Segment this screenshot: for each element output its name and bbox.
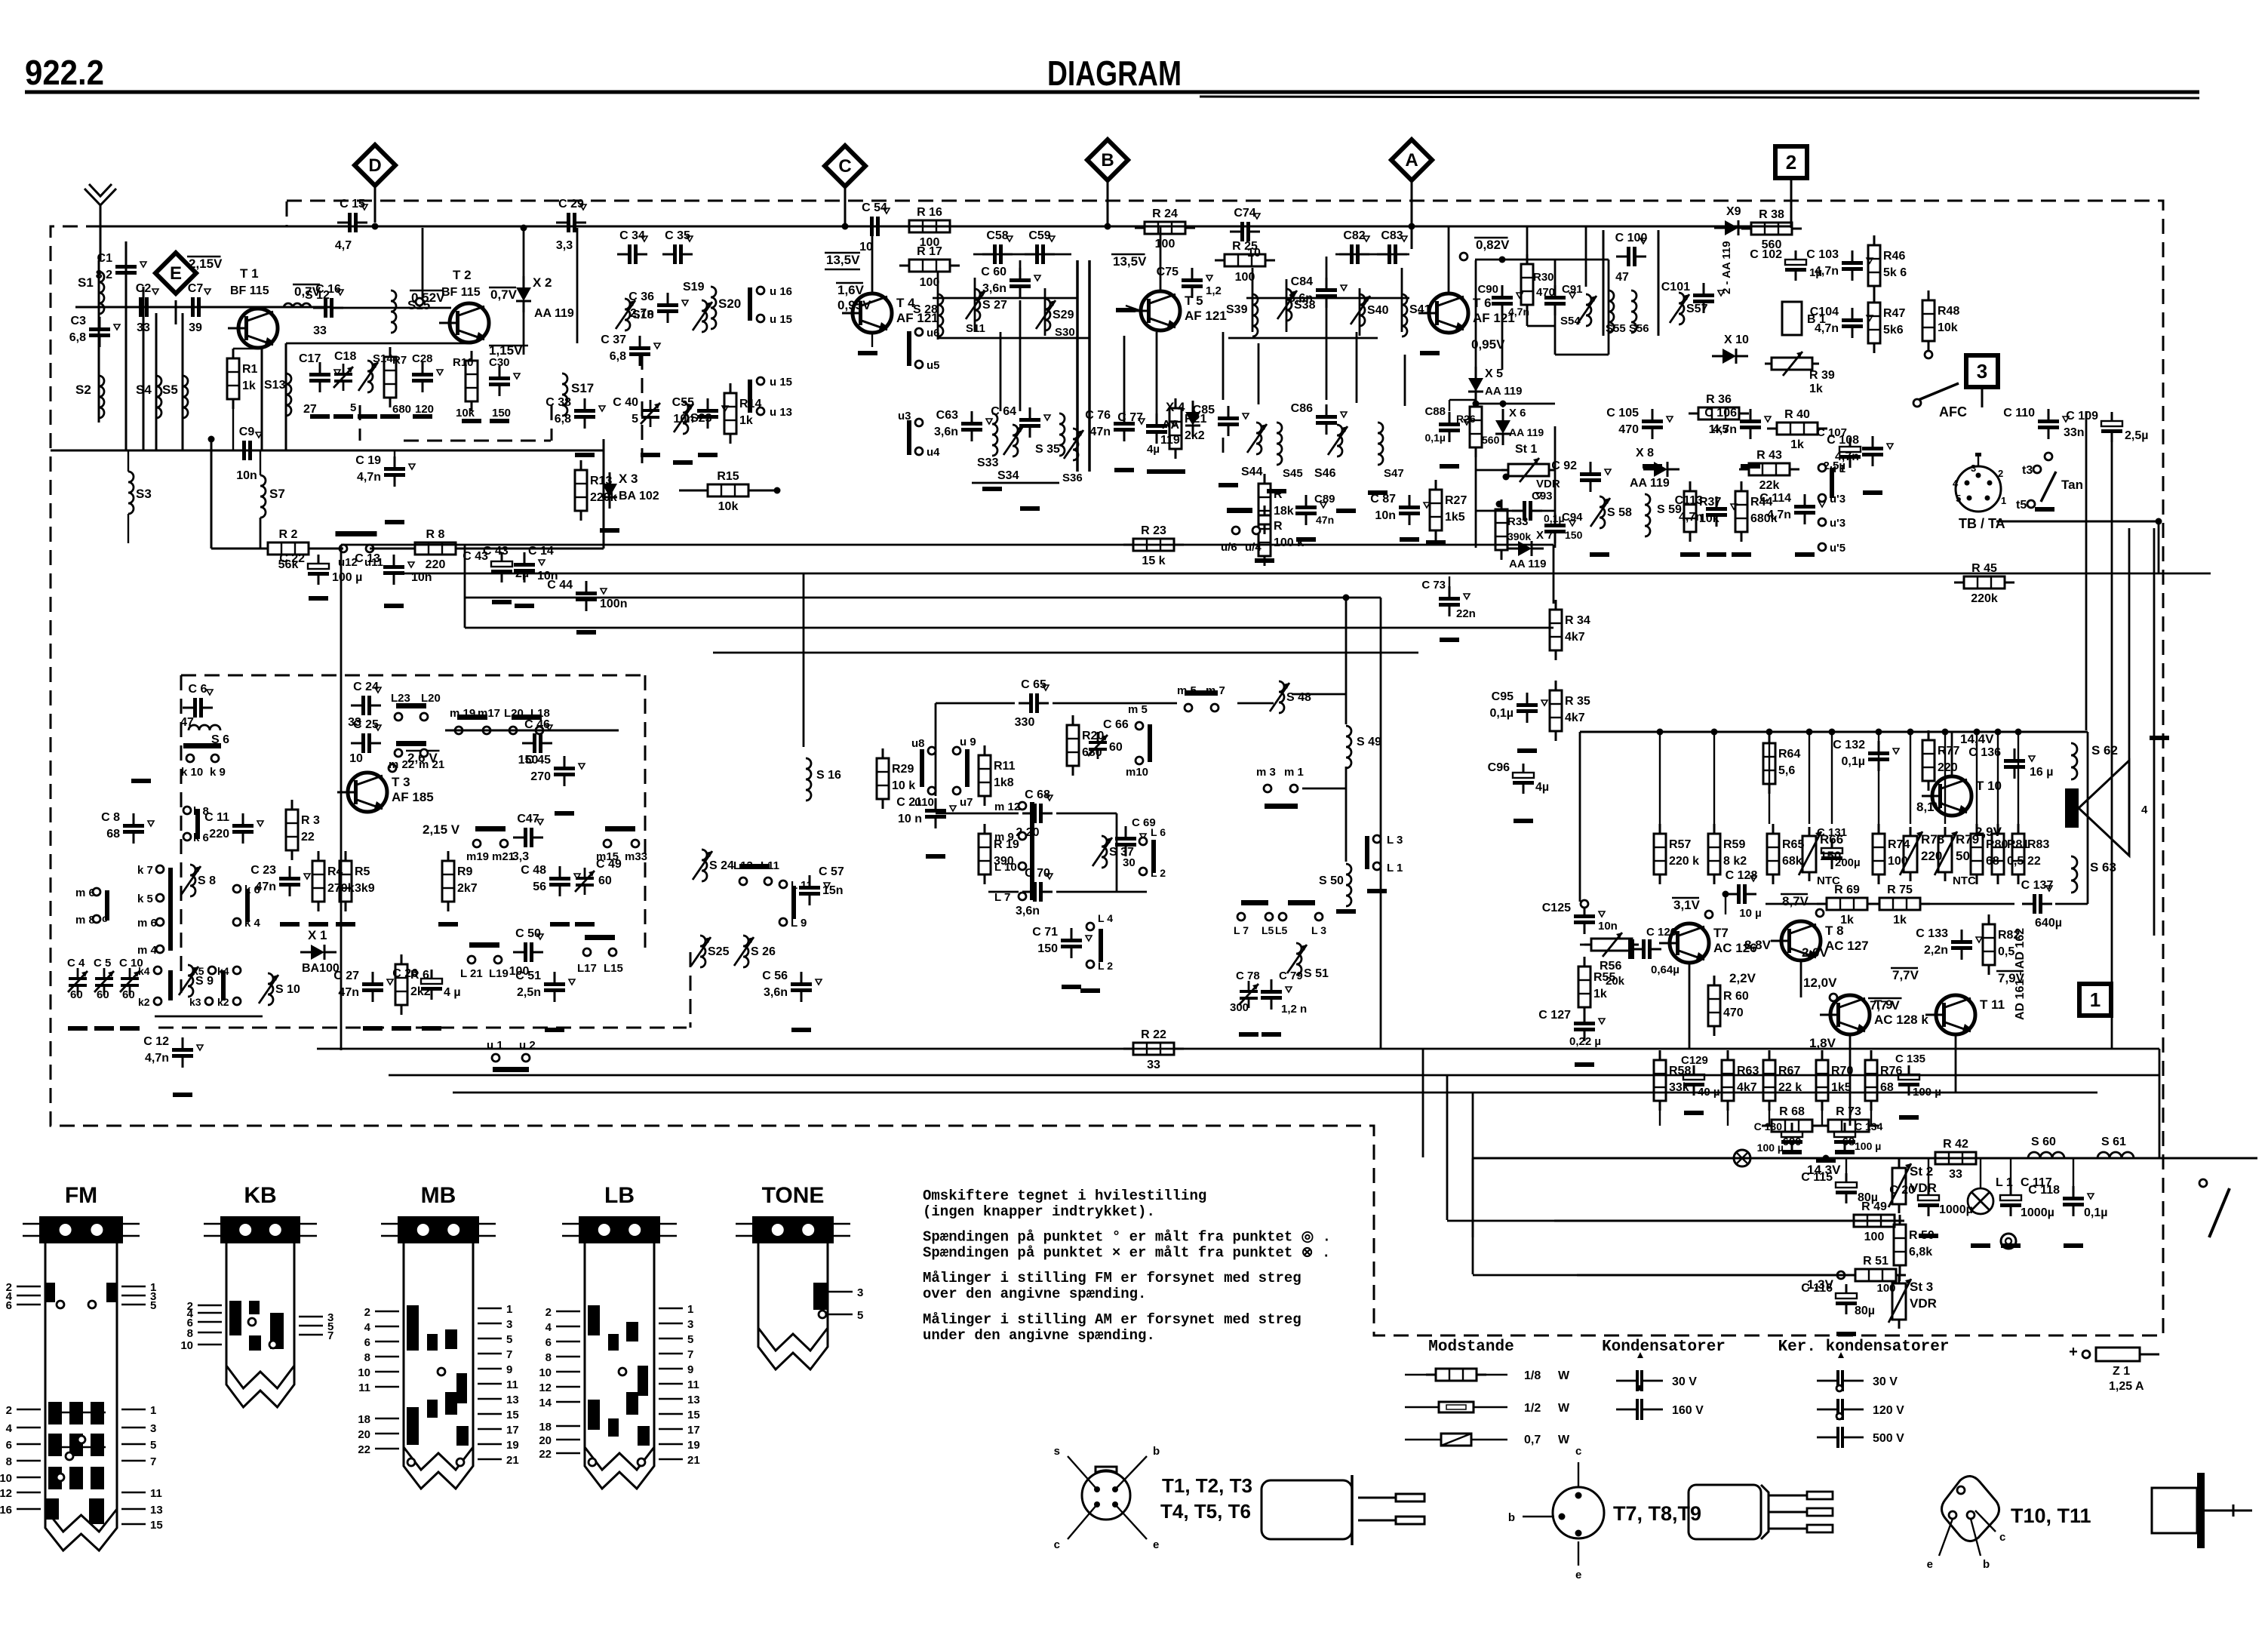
- svg-text:1k: 1k: [242, 380, 256, 392]
- svg-text:S17: S17: [571, 381, 594, 395]
- svg-text:C2: C2: [136, 282, 152, 295]
- svg-text:S 51: S 51: [1304, 967, 1329, 980]
- svg-text:k5: k5: [192, 965, 204, 977]
- svg-text:C 12: C 12: [143, 1035, 169, 1048]
- svg-text:11: 11: [150, 1487, 162, 1500]
- svg-text:6,8: 6,8: [69, 331, 86, 344]
- svg-text:3,3: 3,3: [556, 239, 573, 252]
- svg-text:10 k: 10 k: [892, 779, 915, 792]
- svg-text:R65: R65: [1782, 838, 1804, 851]
- svg-text:2: 2: [6, 1404, 12, 1417]
- svg-text:S 48: S 48: [1286, 691, 1311, 704]
- svg-text:R 40: R 40: [1784, 408, 1810, 421]
- svg-text:m 1: m 1: [1284, 766, 1304, 779]
- svg-text:C 103: C 103: [1806, 248, 1839, 261]
- svg-text:27: 27: [303, 403, 317, 416]
- svg-text:C 37: C 37: [601, 333, 626, 346]
- svg-text:C 36: C 36: [628, 290, 654, 303]
- svg-text:R 34: R 34: [1565, 614, 1590, 627]
- svg-text:4k7: 4k7: [1565, 631, 1585, 644]
- svg-text:16: 16: [0, 1504, 12, 1517]
- svg-text:100 µ: 100 µ: [1855, 1140, 1881, 1152]
- svg-text:Tan: Tan: [2061, 478, 2083, 492]
- svg-text:10n: 10n: [236, 469, 257, 482]
- svg-text:6: 6: [364, 1336, 370, 1349]
- svg-text:u8: u8: [911, 737, 925, 750]
- svg-text:120 V: 120 V: [1873, 1404, 1904, 1417]
- svg-text:t5: t5: [2016, 499, 2027, 512]
- svg-text:4,7n: 4,7n: [1815, 265, 1839, 278]
- svg-text:220: 220: [1938, 761, 1958, 774]
- svg-text:8: 8: [364, 1351, 370, 1364]
- svg-text:W: W: [1558, 1369, 1570, 1382]
- svg-text:4 µ: 4 µ: [444, 986, 461, 999]
- svg-text:220k: 220k: [1971, 592, 1998, 605]
- svg-text:150: 150: [1037, 942, 1058, 955]
- svg-text:C 4: C 4: [67, 957, 85, 970]
- svg-text:R59: R59: [1723, 838, 1745, 851]
- svg-text:2,2n: 2,2n: [1924, 944, 1948, 957]
- svg-text:TB / TA: TB / TA: [1959, 516, 2005, 531]
- svg-text:3k9: 3k9: [355, 882, 375, 895]
- svg-text:NTC: NTC: [1953, 874, 1976, 887]
- svg-text:S 28: S 28: [913, 303, 938, 316]
- svg-text:11: 11: [687, 1378, 699, 1391]
- svg-text:S 8: S 8: [198, 874, 216, 887]
- svg-text:3: 3: [506, 1318, 512, 1331]
- svg-text:k 5: k 5: [137, 893, 153, 905]
- svg-text:R: R: [1274, 520, 1283, 533]
- svg-text:Spændingen på punktet × er mål: Spændingen på punktet × er målt fra punk…: [923, 1245, 1330, 1262]
- svg-text:12,0V: 12,0V: [1803, 976, 1837, 990]
- svg-text:1: 1: [2001, 495, 2006, 506]
- svg-text:X 10: X 10: [1724, 333, 1749, 346]
- svg-text:R 38: R 38: [1759, 208, 1784, 221]
- svg-text:k 9: k 9: [210, 766, 226, 779]
- svg-text:13: 13: [687, 1394, 700, 1406]
- svg-text:R 16: R 16: [917, 206, 942, 219]
- svg-text:R: R: [1274, 488, 1283, 501]
- svg-text:m 4: m 4: [137, 944, 158, 957]
- svg-text:4: 4: [545, 1321, 552, 1334]
- svg-text:St 3: St 3: [1910, 1280, 1933, 1294]
- svg-text:7: 7: [687, 1348, 693, 1361]
- svg-text:1,2: 1,2: [1206, 284, 1222, 297]
- svg-text:500 V: 500 V: [1873, 1432, 1904, 1445]
- svg-text:10: 10: [349, 752, 363, 765]
- svg-text:10: 10: [859, 241, 873, 254]
- svg-text:47n: 47n: [1316, 514, 1334, 526]
- svg-text:C: C: [838, 156, 851, 177]
- svg-text:DIAGRAM: DIAGRAM: [1047, 54, 1182, 93]
- svg-text:5k6: 5k6: [1883, 324, 1904, 337]
- svg-text:1k: 1k: [1790, 438, 1804, 451]
- svg-text:R 25: R 25: [1232, 240, 1258, 253]
- svg-text:19: 19: [687, 1439, 700, 1452]
- svg-text:220 k: 220 k: [1669, 855, 1699, 868]
- svg-text:11: 11: [506, 1378, 518, 1391]
- svg-text:S45: S45: [1283, 467, 1303, 480]
- svg-text:under den angivne spænding.: under den angivne spænding.: [923, 1327, 1155, 1344]
- svg-text:X 8: X 8: [1636, 447, 1654, 459]
- svg-text:15: 15: [506, 1409, 519, 1421]
- svg-text:T 11: T 11: [1980, 997, 2005, 1012]
- svg-text:1,25 A: 1,25 A: [2109, 1380, 2144, 1393]
- svg-text:S36: S36: [1062, 472, 1083, 484]
- svg-text:R 75: R 75: [1887, 884, 1913, 896]
- svg-text:L 3: L 3: [1387, 834, 1403, 847]
- svg-text:8: 8: [6, 1455, 12, 1468]
- svg-text:Kondensatorer: Kondensatorer: [1602, 1338, 1726, 1356]
- svg-text:1,6V: 1,6V: [837, 283, 865, 297]
- svg-text:C96: C96: [1488, 761, 1510, 774]
- svg-text:MB: MB: [421, 1183, 456, 1208]
- svg-text:C 87: C 87: [1370, 493, 1396, 506]
- svg-text:14: 14: [539, 1397, 552, 1409]
- svg-text:0,1µ: 0,1µ: [2084, 1206, 2107, 1219]
- svg-text:1: 1: [2090, 988, 2101, 1011]
- svg-text:5k 6: 5k 6: [1883, 266, 1907, 279]
- svg-text:C 76: C 76: [1085, 409, 1111, 422]
- svg-text:C55: C55: [672, 396, 694, 409]
- svg-text:T1, T2, T3: T1, T2, T3: [1162, 1474, 1252, 1497]
- svg-text:C 57: C 57: [819, 865, 844, 878]
- svg-text:7,7V: 7,7V: [1892, 968, 1919, 982]
- svg-text:Spændingen på punktet ° er mål: Spændingen på punktet ° er målt fra punk…: [923, 1229, 1331, 1246]
- svg-text:C 135: C 135: [1895, 1053, 1925, 1065]
- svg-text:S 27: S 27: [982, 299, 1007, 312]
- svg-text:15: 15: [150, 1519, 163, 1532]
- svg-text:Målinger i stilling FM er fors: Målinger i stilling FM er forsynet med s…: [923, 1270, 1301, 1286]
- svg-text:X 3: X 3: [619, 472, 638, 486]
- svg-text:S1: S1: [78, 275, 94, 290]
- svg-text:S40: S40: [1367, 304, 1389, 317]
- svg-text:S 35: S 35: [1035, 443, 1060, 456]
- svg-text:X 4: X 4: [1166, 400, 1185, 414]
- svg-text:c: c: [1999, 1531, 2005, 1544]
- svg-text:5,6: 5,6: [1778, 764, 1795, 777]
- svg-text:C 44: C 44: [547, 579, 573, 592]
- svg-text:C 51: C 51: [515, 970, 541, 982]
- svg-text:4: 4: [2141, 804, 2148, 816]
- svg-text:5: 5: [150, 1439, 156, 1452]
- svg-text:1: 1: [506, 1303, 512, 1316]
- svg-text:R11: R11: [994, 760, 1016, 773]
- svg-text:Omskiftere tegnet i hvilestill: Omskiftere tegnet i hvilestilling: [923, 1188, 1206, 1204]
- svg-text:C 118: C 118: [2028, 1184, 2060, 1197]
- svg-text:R 42: R 42: [1943, 1138, 1968, 1151]
- svg-text:L 10: L 10: [994, 861, 1017, 874]
- svg-text:D: D: [368, 155, 381, 176]
- svg-text:R 50: R 50: [1909, 1229, 1935, 1242]
- svg-text:22: 22: [539, 1448, 552, 1461]
- svg-text:S 26: S 26: [751, 945, 776, 958]
- svg-text:C91: C91: [1562, 283, 1583, 296]
- svg-text:C89: C89: [1314, 493, 1335, 506]
- svg-text:8,8V: 8,8V: [1744, 938, 1772, 952]
- svg-text:b: b: [1153, 1445, 1160, 1458]
- svg-text:5: 5: [350, 401, 356, 414]
- svg-text:C 132: C 132: [1833, 739, 1865, 751]
- svg-text:S 49: S 49: [1357, 736, 1381, 748]
- svg-text:C88: C88: [1424, 405, 1446, 418]
- svg-text:C63: C63: [936, 409, 958, 422]
- svg-text:C82: C82: [1343, 229, 1365, 242]
- svg-text:6,8k: 6,8k: [1909, 1246, 1932, 1259]
- svg-text:8 k2: 8 k2: [1723, 855, 1747, 868]
- svg-text:12: 12: [539, 1381, 552, 1394]
- svg-text:C 134: C 134: [1855, 1120, 1883, 1133]
- svg-text:k 7: k 7: [137, 864, 153, 877]
- svg-text:C9: C9: [239, 426, 255, 438]
- svg-text:22: 22: [301, 831, 315, 844]
- svg-text:C17: C17: [299, 352, 321, 365]
- svg-text:u 2: u 2: [519, 1039, 536, 1052]
- svg-text:1k: 1k: [739, 414, 753, 427]
- svg-text:Ker. kondensatorer: Ker. kondensatorer: [1778, 1338, 1950, 1356]
- svg-text:C125: C125: [1542, 902, 1571, 914]
- svg-text:m 6: m 6: [137, 917, 157, 930]
- svg-text:AF 121: AF 121: [1185, 309, 1227, 323]
- svg-text:S 10: S 10: [275, 983, 300, 996]
- svg-text:2,15 V: 2,15 V: [423, 822, 460, 837]
- svg-text:150: 150: [492, 407, 511, 420]
- svg-text:L15: L15: [604, 962, 623, 975]
- svg-text:VDR: VDR: [1910, 1296, 1937, 1311]
- svg-text:L 21: L 21: [460, 967, 483, 980]
- svg-text:60: 60: [70, 988, 83, 1001]
- svg-text:60: 60: [97, 988, 109, 1001]
- svg-text:C 26: C 26: [392, 967, 418, 980]
- svg-text:4,7n: 4,7n: [1767, 509, 1791, 521]
- svg-text:4,7n: 4,7n: [1835, 450, 1859, 463]
- svg-text:R27: R27: [1445, 494, 1467, 507]
- svg-text:47: 47: [180, 716, 194, 729]
- svg-text:0,1µ: 0,1µ: [1424, 432, 1446, 444]
- svg-text:m 5: m 5: [1128, 703, 1148, 716]
- svg-text:S20: S20: [718, 297, 741, 311]
- svg-text:220: 220: [209, 828, 229, 841]
- svg-text:1000µ: 1000µ: [2021, 1206, 2054, 1219]
- svg-text:S 50: S 50: [1319, 874, 1344, 887]
- svg-text:C129: C129: [1681, 1054, 1708, 1067]
- svg-text:3: 3: [1971, 463, 1976, 474]
- svg-text:10 µ: 10 µ: [1739, 907, 1762, 920]
- svg-text:R 3: R 3: [301, 814, 320, 827]
- svg-text:1,2 n: 1,2 n: [1281, 1003, 1307, 1016]
- svg-text:R 17: R 17: [917, 245, 942, 258]
- svg-text:100: 100: [920, 276, 940, 289]
- svg-text:c: c: [1054, 1538, 1060, 1551]
- svg-text:15 k: 15 k: [1142, 555, 1165, 567]
- svg-text:u5: u5: [927, 359, 940, 372]
- svg-text:C104: C104: [1810, 306, 1839, 318]
- svg-text:AC 127: AC 127: [1825, 939, 1869, 953]
- svg-text:AA 119: AA 119: [1509, 558, 1546, 570]
- svg-text:50: 50: [1956, 849, 1970, 863]
- svg-text:160 V: 160 V: [1672, 1404, 1704, 1417]
- svg-text:C84: C84: [1291, 275, 1313, 288]
- svg-text:640µ: 640µ: [2035, 917, 2062, 930]
- svg-text:C 136: C 136: [1968, 746, 2001, 759]
- svg-text:9: 9: [506, 1363, 512, 1376]
- svg-text:2,5µ: 2,5µ: [2125, 429, 2148, 442]
- svg-text:C 106: C 106: [1704, 407, 1737, 420]
- svg-text:R 49: R 49: [1861, 1200, 1887, 1213]
- svg-text:R 73: R 73: [1836, 1105, 1861, 1118]
- svg-text:150: 150: [1565, 529, 1583, 541]
- svg-text:47n: 47n: [1089, 426, 1111, 438]
- svg-text:C 131: C 131: [1817, 826, 1847, 839]
- svg-text:AA 119: AA 119: [1509, 426, 1544, 438]
- svg-text:X9: X9: [1726, 205, 1741, 218]
- svg-text:AC 128 k: AC 128 k: [1874, 1013, 1928, 1027]
- svg-text:m 9: m 9: [994, 831, 1014, 844]
- svg-text:C 102: C 102: [1750, 248, 1782, 261]
- svg-text:1/8: 1/8: [1524, 1369, 1541, 1382]
- svg-text:2,7n: 2,7n: [630, 307, 654, 320]
- svg-text:1k: 1k: [1809, 383, 1823, 395]
- svg-text:AFC: AFC: [1939, 404, 1967, 420]
- svg-text:T 3: T 3: [392, 775, 410, 789]
- svg-text:2 - AA 119: 2 - AA 119: [1720, 241, 1733, 294]
- svg-text:Z 1: Z 1: [2113, 1365, 2130, 1378]
- svg-text:L 6: L 6: [1151, 826, 1166, 838]
- svg-text:100 µ: 100 µ: [332, 571, 362, 584]
- svg-text:S5: S5: [162, 383, 178, 397]
- svg-text:LB: LB: [604, 1183, 635, 1208]
- svg-text:C 19: C 19: [355, 454, 381, 467]
- svg-text:R33: R33: [1507, 515, 1529, 528]
- svg-text:8,2: 8,2: [96, 269, 112, 281]
- svg-text:R 8: R 8: [426, 528, 445, 541]
- svg-text:St 1: St 1: [1515, 443, 1537, 456]
- svg-text:2k2: 2k2: [1185, 429, 1205, 442]
- svg-text:C 64: C 64: [991, 405, 1016, 418]
- svg-text:922.2: 922.2: [25, 53, 104, 92]
- svg-text:10n: 10n: [1598, 920, 1618, 933]
- svg-text:100n: 100n: [600, 598, 627, 610]
- svg-text:1: 1: [687, 1303, 693, 1316]
- svg-text:33: 33: [313, 324, 327, 337]
- svg-text:L23: L23: [391, 692, 410, 705]
- svg-text:C 130: C 130: [1754, 1120, 1783, 1133]
- svg-text:Modstande: Modstande: [1428, 1338, 1514, 1356]
- svg-text:10: 10: [358, 1366, 370, 1379]
- svg-text:0,5: 0,5: [1998, 945, 2014, 958]
- svg-text:R 36: R 36: [1706, 393, 1732, 406]
- svg-text:R46: R46: [1883, 250, 1905, 263]
- svg-text:5: 5: [632, 413, 638, 426]
- svg-text:R 69: R 69: [1834, 884, 1860, 896]
- svg-text:80µ: 80µ: [1855, 1305, 1875, 1317]
- svg-text:C 8: C 8: [101, 811, 120, 824]
- svg-text:20: 20: [358, 1428, 370, 1441]
- svg-text:20: 20: [539, 1434, 552, 1447]
- svg-text:0,7V: 0,7V: [490, 287, 518, 302]
- svg-text:C113: C113: [1675, 494, 1703, 507]
- svg-text:R29: R29: [892, 763, 914, 776]
- svg-text:3: 3: [1977, 360, 1987, 383]
- svg-text:m21: m21: [492, 850, 515, 863]
- svg-text:C86: C86: [1291, 402, 1313, 415]
- svg-text:2k7: 2k7: [457, 882, 478, 895]
- svg-text:22: 22: [2027, 855, 2041, 868]
- svg-text:e: e: [1927, 1558, 1933, 1571]
- svg-text:S2: S2: [75, 383, 91, 397]
- svg-text:R 39: R 39: [1809, 369, 1835, 382]
- svg-text:u 1: u 1: [487, 1039, 503, 1052]
- svg-text:4: 4: [364, 1321, 371, 1334]
- svg-text:3,6n: 3,6n: [982, 282, 1006, 295]
- svg-text:C 114: C 114: [1759, 492, 1791, 505]
- svg-text:4,7n: 4,7n: [145, 1052, 169, 1065]
- svg-text:m19: m19: [466, 850, 489, 863]
- svg-text:T7: T7: [1713, 926, 1729, 940]
- svg-text:S30: S30: [1055, 326, 1075, 339]
- svg-text:k2: k2: [138, 996, 150, 1008]
- svg-text:10k: 10k: [718, 500, 739, 513]
- svg-text:C18: C18: [334, 350, 356, 363]
- svg-text:33: 33: [137, 321, 150, 334]
- svg-text:u/4: u/4: [1245, 541, 1262, 554]
- svg-text:330: 330: [1015, 716, 1035, 729]
- svg-text:m 21: m 21: [419, 758, 444, 771]
- svg-text:S34: S34: [997, 469, 1019, 482]
- svg-text:e: e: [1153, 1538, 1159, 1551]
- svg-text:4: 4: [1953, 478, 1959, 489]
- svg-text:C85: C85: [1193, 404, 1215, 416]
- svg-text:C74: C74: [1234, 207, 1255, 220]
- svg-text:m 3: m 3: [1256, 766, 1276, 779]
- svg-text:10k: 10k: [456, 407, 475, 420]
- svg-text:u 9: u 9: [960, 736, 976, 748]
- svg-text:C 77: C 77: [1117, 411, 1143, 424]
- svg-text:+: +: [2069, 1344, 2078, 1360]
- svg-text:L5: L5: [1275, 924, 1288, 936]
- svg-text:R55: R55: [1593, 971, 1615, 984]
- svg-text:1: 1: [150, 1404, 156, 1417]
- svg-text:L19: L19: [489, 967, 509, 980]
- svg-text:60: 60: [598, 874, 612, 887]
- svg-text:R20: R20: [1082, 730, 1104, 742]
- svg-text:0,64µ: 0,64µ: [1651, 963, 1679, 976]
- svg-text:7: 7: [150, 1455, 156, 1468]
- svg-text:C 20: C 20: [1889, 1184, 1915, 1197]
- svg-text:2: 2: [1998, 468, 2003, 479]
- svg-text:m 22: m 22: [389, 758, 414, 771]
- svg-text:S44: S44: [1241, 466, 1263, 478]
- svg-text:k3: k3: [189, 996, 201, 1008]
- svg-text:L 7: L 7: [994, 891, 1010, 904]
- svg-text:68: 68: [106, 828, 120, 841]
- svg-text:C3: C3: [71, 315, 87, 327]
- svg-text:C 45: C 45: [525, 754, 551, 767]
- svg-text:C 6: C 6: [189, 683, 207, 696]
- svg-text:9: 9: [687, 1363, 693, 1376]
- svg-text:10n: 10n: [1375, 509, 1396, 522]
- svg-text:C30: C30: [489, 356, 510, 369]
- svg-text:m 8: m 8: [75, 914, 95, 927]
- svg-text:5: 5: [506, 1333, 512, 1346]
- svg-text:47: 47: [1615, 271, 1629, 284]
- svg-text:R 43: R 43: [1756, 449, 1782, 462]
- svg-text:u7: u7: [960, 796, 973, 809]
- svg-text:C 78: C 78: [1236, 970, 1260, 982]
- svg-text:7,7 V: 7,7 V: [1870, 998, 1900, 1013]
- svg-text:13,5V: 13,5V: [826, 253, 860, 267]
- svg-text:1k: 1k: [1893, 914, 1907, 927]
